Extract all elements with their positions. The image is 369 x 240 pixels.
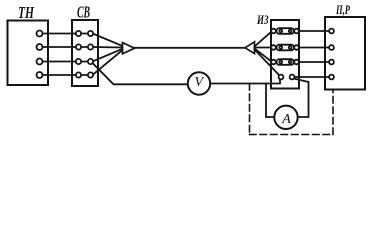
dashed enclosure left side	[249, 84, 251, 135]
wire row 1 TN to SV	[40, 33, 89, 35]
svg-text:ИЗ: ИЗ	[256, 12, 268, 27]
wire fan SV row1 to cable node	[93, 34, 123, 47]
wire fan W2 to IZ row2	[255, 47, 272, 49]
cable marker triangle W1 (right pointing)	[123, 43, 135, 54]
wire cable trunk	[135, 47, 246, 49]
voltmeter V	[188, 72, 210, 94]
box SV	[72, 20, 98, 86]
wire IZ to PR row2	[297, 47, 330, 49]
wire fan W2 to IZ row1	[255, 32, 272, 47]
wire ammeter left branch from rail	[266, 84, 275, 118]
box IZ (test terminal block)	[271, 20, 299, 89]
wire row 4 TN to SV	[40, 74, 89, 76]
wire fan SV row3 to cable node	[93, 49, 123, 62]
IZ row4 open link terminals	[279, 75, 295, 80]
svg-text:П,Р: П,Р	[335, 2, 350, 17]
terminals SV right column	[88, 31, 93, 78]
wire ammeter right branch to IZ row4 right terminal	[294, 79, 309, 118]
wire fan SV row4 to cable node	[93, 50, 123, 75]
wire fan W2 to IZ row3	[255, 49, 272, 62]
svg-text:ТН: ТН	[18, 3, 35, 22]
terminals SV left column	[76, 31, 81, 78]
ammeter A	[274, 106, 297, 129]
wire fan W2 to IZ row4	[255, 50, 280, 76]
dashed enclosure bottom side	[250, 134, 334, 136]
box TN (voltage transformer)	[8, 21, 49, 86]
wire IZ to PR row3	[297, 61, 330, 63]
wire row 3 TN to SV	[40, 61, 89, 63]
svg-text:V: V	[195, 75, 205, 90]
terminals TN 1-4	[37, 31, 43, 79]
svg-text:СВ: СВ	[77, 3, 90, 22]
IZ row2 link (terminals and jumper)	[271, 45, 299, 51]
dashed enclosure right side	[332, 90, 334, 135]
wire IZ to PR row1	[297, 30, 330, 32]
wire fan SV row2 to cable node	[93, 46, 123, 49]
cable marker triangle W2 (left pointing)	[245, 42, 255, 54]
wire IZ to PR row4	[294, 76, 330, 78]
wire SV row3 down to voltmeter rail	[93, 63, 189, 84]
voltmeter rail from V to IZ row4 left terminal	[211, 80, 281, 84]
svg-text:A: A	[281, 112, 291, 127]
IZ row3 link (terminals and jumper)	[271, 59, 299, 65]
wire row 2 TN to SV	[40, 46, 89, 48]
terminals PR 1-4	[329, 29, 334, 80]
box PR (meter under test panel)	[325, 17, 365, 90]
IZ row1 link (terminals and jumper)	[271, 28, 299, 34]
